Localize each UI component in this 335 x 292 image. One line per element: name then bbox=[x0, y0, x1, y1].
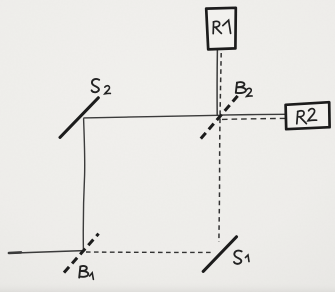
wire: input beam into B1 (solid, left edge) bbox=[9, 251, 84, 254]
label S1 bbox=[234, 251, 249, 264]
wire: dashed beam R1 through B2 to S1 (vertical) bbox=[219, 53, 221, 242]
wire: dashed beam B2 to R2 (horizontal) bbox=[222, 118, 285, 119]
wire: beam R1 to B2 (solid vertical) bbox=[216, 50, 218, 115]
wire: beam S2 to B2 (solid horizontal) bbox=[84, 115, 219, 118]
beam splitter B2 (thick dashed diagonal) bbox=[201, 96, 238, 139]
detector box R1 bbox=[206, 8, 236, 50]
label R2 (handwritten) bbox=[297, 109, 317, 124]
beam splitter B1 (thick dashed diagonal) bbox=[64, 234, 99, 273]
wire: beam B2 to R2 (solid horizontal) bbox=[221, 113, 286, 116]
label S2 bbox=[92, 79, 111, 94]
mirror S2 (thick solid diagonal) bbox=[60, 98, 98, 138]
mirror S1 (thick solid diagonal) bbox=[203, 237, 236, 272]
label R1 (handwritten) bbox=[213, 20, 230, 33]
wire: dashed beam B1 to S1 (horizontal) bbox=[86, 251, 211, 253]
label B2 bbox=[236, 82, 252, 96]
wire: beam B1 to S2 (solid vertical) bbox=[83, 119, 84, 251]
label B1 bbox=[79, 266, 93, 279]
detector box R2 bbox=[286, 102, 330, 129]
